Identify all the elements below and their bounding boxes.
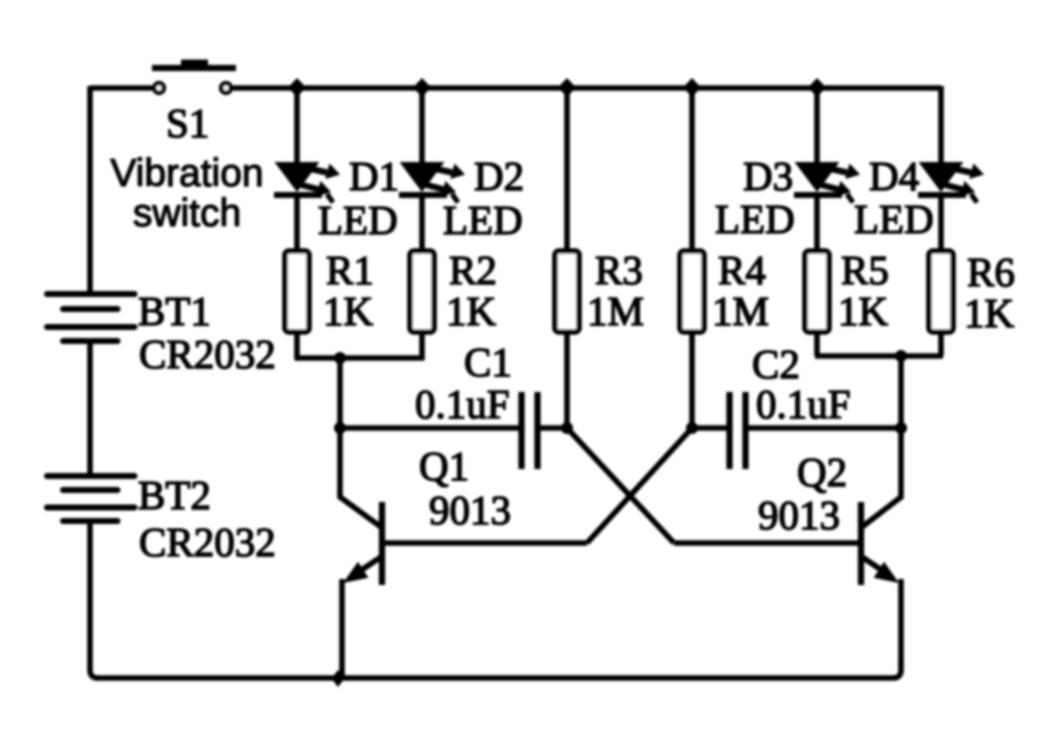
- capacitor C1: [522, 392, 538, 469]
- capacitor C2: [730, 392, 746, 469]
- node dot Q1 emitter bottom: [332, 670, 345, 687]
- svg-text:C1: C1: [464, 339, 512, 385]
- node junction diamond col1: [288, 78, 306, 97]
- wire bottom rail: [96, 662, 901, 678]
- transistor Q2: [674, 428, 901, 666]
- svg-text:D4: D4: [869, 153, 919, 199]
- wire C1 left lead: [340, 425, 520, 431]
- svg-text:R4: R4: [718, 247, 766, 293]
- wire R5-R6 join: [815, 353, 943, 359]
- LED D3: [794, 88, 860, 250]
- wire R5 bottom: [814, 334, 820, 356]
- node dot Q1 collector top: [334, 352, 346, 364]
- svg-text:Q1: Q1: [419, 443, 469, 489]
- resistor R6: [929, 251, 953, 332]
- svg-text:1K: 1K: [446, 288, 497, 334]
- svg-text:1M: 1M: [587, 288, 644, 334]
- node junction diamond col2: [413, 78, 431, 97]
- svg-text:R1: R1: [326, 247, 374, 293]
- svg-text:0.1uF: 0.1uF: [415, 381, 510, 427]
- wire left rail middle: [87, 343, 93, 474]
- svg-text:Vibration: Vibration: [110, 152, 263, 195]
- wire top rail right segment: [233, 85, 941, 91]
- svg-text:CR2032: CR2032: [139, 519, 276, 565]
- node dot Q2 collector top: [895, 350, 907, 362]
- wire Q1 collector drop: [337, 358, 343, 428]
- transistor Q1: [340, 428, 587, 678]
- node dot R4 bottom: [686, 422, 698, 434]
- resistor R1: [285, 251, 309, 332]
- node junction diamond col5: [808, 78, 826, 97]
- LED D2: [399, 88, 465, 250]
- svg-text:R2: R2: [449, 247, 497, 293]
- svg-text:switch: switch: [133, 192, 241, 235]
- svg-text:LED: LED: [715, 196, 795, 242]
- svg-text:BT1: BT1: [138, 288, 211, 334]
- resistor R3: [555, 88, 579, 428]
- wire R1 bottom: [294, 334, 300, 360]
- switch S1: [152, 60, 236, 93]
- wire R2 bottom: [419, 334, 425, 360]
- wire Q2 base to node R3 (cross): [567, 428, 674, 543]
- node dot C1 left: [334, 422, 346, 434]
- wire C2 left lead: [692, 425, 728, 431]
- svg-text:R5: R5: [841, 247, 889, 293]
- wire right drop to D4: [938, 86, 944, 163]
- svg-text:LED: LED: [318, 197, 398, 243]
- svg-text:Q2: Q2: [797, 449, 847, 495]
- svg-text:D3: D3: [743, 153, 793, 199]
- svg-text:CR2032: CR2032: [139, 331, 276, 377]
- wire left rail lower: [90, 523, 98, 678]
- LED D1: [274, 88, 340, 250]
- resistor R4: [680, 88, 704, 428]
- battery BT1: [47, 294, 135, 341]
- svg-text:BT2: BT2: [138, 472, 211, 518]
- node junction diamond col3: [558, 78, 576, 97]
- wire left rail upper: [87, 86, 93, 292]
- node junction diamond col4: [683, 78, 701, 97]
- svg-text:LED: LED: [443, 197, 523, 243]
- wire Q2 collector drop: [898, 356, 904, 428]
- wire C2 right lead: [748, 425, 902, 431]
- svg-text:S1: S1: [166, 100, 209, 146]
- svg-text:D2: D2: [474, 153, 524, 199]
- wire Q1 base to node R4 (cross): [587, 428, 692, 543]
- node dot C2 right: [895, 422, 907, 434]
- svg-text:D1: D1: [349, 153, 399, 199]
- svg-text:1K: 1K: [838, 288, 889, 334]
- resistor R2: [410, 251, 434, 332]
- wire C1 right lead: [540, 425, 568, 431]
- resistor R5: [805, 251, 829, 332]
- svg-text:0.1uF: 0.1uF: [756, 381, 851, 427]
- svg-text:1M: 1M: [712, 288, 769, 334]
- wire R6 bottom: [938, 334, 944, 356]
- LED D4: [918, 162, 984, 250]
- svg-text:LED: LED: [854, 196, 934, 242]
- svg-text:R3: R3: [595, 247, 643, 293]
- wire R1-R2 join: [295, 355, 424, 361]
- battery BT2: [47, 476, 135, 521]
- svg-text:R6: R6: [967, 249, 1015, 295]
- svg-text:9013: 9013: [758, 492, 840, 538]
- svg-text:1K: 1K: [964, 290, 1015, 336]
- wire top rail left segment: [90, 85, 152, 91]
- node dot R3 bottom: [561, 422, 573, 434]
- svg-text:9013: 9013: [429, 487, 511, 533]
- svg-text:1K: 1K: [323, 288, 374, 334]
